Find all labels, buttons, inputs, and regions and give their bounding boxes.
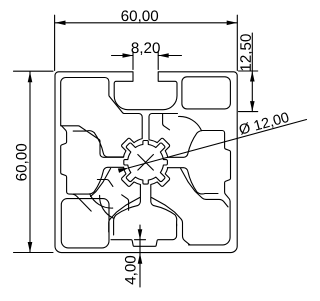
bottom chamber left wall and dome ceiling west half with chimney wall xyxy=(114,185,141,235)
extension line 12,50 top xyxy=(239,70,258,72)
label 12,50 xyxy=(240,34,253,70)
dim line 4,00 xyxy=(139,225,141,287)
right chamber dome ceiling south half xyxy=(167,168,218,194)
left chamber bottom wall and dome ceiling south half with chimney wall xyxy=(73,167,124,194)
arrow 12,50 down xyxy=(250,101,255,112)
arrow 60,00 right xyxy=(227,21,238,26)
right chamber top wall and dome ceiling north half with chimney wall xyxy=(167,130,218,157)
center bore D12 with thread notches xyxy=(124,141,168,185)
bottom-left corner cavity xyxy=(61,199,109,248)
outer contour of 60x60 aluminium profile xyxy=(55,72,237,253)
left chamber dome ceiling north half xyxy=(73,131,124,157)
extension line left-bottom xyxy=(14,252,54,254)
label diameter 12,00 xyxy=(238,112,290,137)
dim line 8,20 right segment xyxy=(158,55,181,57)
E chamber to corner cavity boundary xyxy=(181,168,228,207)
cavity ring SW segment with bump xyxy=(122,167,141,186)
SW web boundary sweep left side xyxy=(90,194,113,208)
left chamber east-bottom edge, groove wall and top jog xyxy=(61,126,91,211)
arrow 60,00 up xyxy=(28,72,33,83)
top-right corner cavity xyxy=(182,77,231,109)
dim line 12,50 xyxy=(251,33,253,112)
S chamber to corner cavity boundary xyxy=(152,198,191,245)
cavity ring SE segment with bump xyxy=(151,168,170,187)
NE web boundary sweep xyxy=(179,116,202,130)
cavity ring NE segment with bump xyxy=(149,138,170,157)
arrow 60,00 down xyxy=(28,242,33,253)
N-right pocket east wall xyxy=(163,114,170,130)
W-bottom pocket south wall xyxy=(97,180,113,187)
center mark X xyxy=(138,155,154,171)
label 4,00 xyxy=(125,256,138,285)
arrow 60,00 left xyxy=(55,21,66,26)
S-left pocket west wall xyxy=(122,195,129,211)
arrow 12,50 up xyxy=(250,71,255,82)
arrow 8,20 right xyxy=(158,53,169,58)
top-left corner cavity with arms around core xyxy=(61,78,143,158)
leader arrowhead xyxy=(118,168,129,173)
arrow 8,20 left xyxy=(123,53,134,58)
arrow 4,00 down xyxy=(138,229,143,240)
extension line left-top xyxy=(14,70,54,72)
leader line diameter 12,00 xyxy=(129,120,307,168)
bottom chamber lower outline with screw groove xyxy=(111,224,177,246)
arrow 4,00 up xyxy=(138,253,143,264)
label 8,20 xyxy=(132,42,160,55)
extension line top-right xyxy=(236,15,238,70)
north web wall and NE strip top xyxy=(149,114,178,140)
right chamber east side with groove and bottom-right cavity xyxy=(189,131,231,245)
SW web boundary sweep xyxy=(100,195,114,218)
extension line 8,20 right xyxy=(157,52,159,70)
extension line 8,20 left xyxy=(132,52,134,70)
W chamber to bottom-left cavity boundary xyxy=(91,168,111,196)
label 60,00 left xyxy=(16,144,29,181)
dim line 8,20 left segment xyxy=(112,55,134,57)
extension line top-left xyxy=(54,15,56,70)
dim line 60,00 top xyxy=(55,22,237,24)
extension tick 4,00 top xyxy=(135,239,146,241)
S chamber to bottom-left cavity boundary xyxy=(109,198,140,233)
label 60,00 top xyxy=(121,10,158,23)
extension line 12,50 bottom xyxy=(239,111,258,113)
bottom chamber dome ceiling east half and right wall xyxy=(151,185,177,226)
extension tick 4,00 bottom xyxy=(135,252,146,254)
dim line 60,00 left xyxy=(29,72,31,253)
